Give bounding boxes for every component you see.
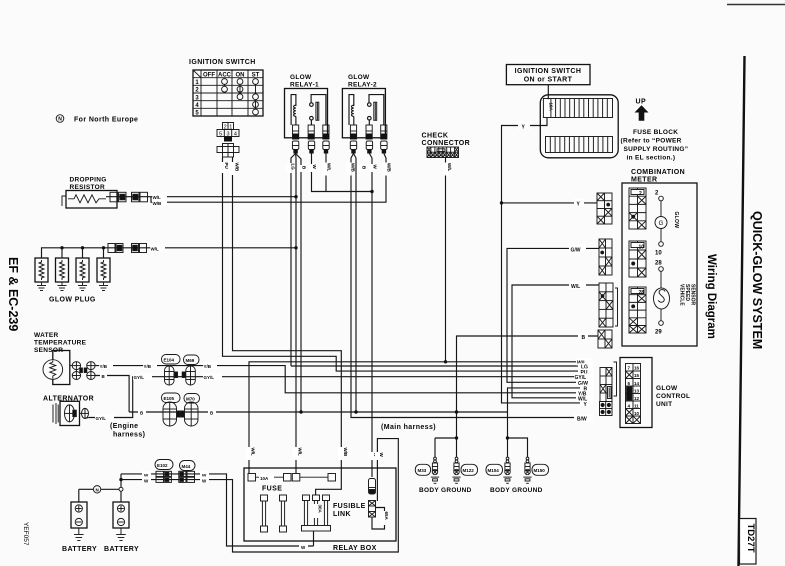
- fusible link connector: [369, 479, 376, 495]
- combination meter box: [622, 183, 697, 346]
- label W/L comb: [569, 281, 586, 290]
- relay 1 pins: [292, 141, 329, 154]
- label GY/L alternator: [95, 414, 114, 421]
- svg-text:SENSOR: SENSOR: [690, 284, 696, 306]
- svg-text:M70: M70: [186, 397, 195, 402]
- svg-text:W/B: W/B: [153, 201, 162, 206]
- svg-text:VEHICLE: VEHICLE: [679, 284, 685, 306]
- fusible link 30A three-element: [302, 495, 331, 531]
- svg-text:GLOW: GLOW: [656, 385, 678, 392]
- svg-text:EF & EC-239: EF & EC-239: [6, 257, 20, 331]
- svg-text:DROPPING: DROPPING: [70, 177, 107, 184]
- connector M69: [182, 366, 195, 385]
- GCU pigtail connector dots: [600, 402, 613, 416]
- check connector block: [427, 147, 459, 158]
- svg-text:RELAY BOX: RELAY BOX: [333, 545, 377, 552]
- open junction battery: [119, 487, 123, 491]
- junction Y to combination meter: [500, 201, 503, 204]
- label W/L glow plug: [150, 244, 165, 252]
- fuse block top comb: [543, 99, 612, 118]
- ignition ON-START box: [506, 65, 590, 85]
- comb meter pin 29: [659, 321, 664, 326]
- relay 1 contact: [310, 95, 326, 125]
- svg-text:E104: E104: [164, 358, 175, 363]
- svg-text:YEF057: YEF057: [22, 522, 29, 546]
- svg-text:QUICK-GLOW SYSTEM: QUICK-GLOW SYSTEM: [750, 211, 764, 349]
- top right rule: [727, 4, 785, 6]
- svg-text:OFF: OFF: [203, 72, 215, 78]
- svg-text:UNIT: UNIT: [656, 401, 672, 408]
- svg-text:GY/L: GY/L: [134, 375, 145, 380]
- glow plug stubs: [62, 248, 104, 258]
- ground branch left pair: [435, 438, 457, 457]
- relay 1 terminals: [293, 125, 330, 139]
- label W pair left: [142, 471, 151, 478]
- svg-text:in EL section.): in EL section.): [627, 155, 676, 162]
- label PU: [220, 162, 230, 173]
- junction B relay2: [354, 410, 357, 413]
- battery 1: [71, 502, 87, 528]
- comb meter connector strip S2: [599, 239, 612, 275]
- label B sensor: [100, 372, 107, 379]
- glow plug 2 ground: [58, 282, 67, 291]
- svg-text:(Engine: (Engine: [110, 423, 138, 430]
- junction B relay1: [299, 410, 302, 413]
- svg-text:CONTROL: CONTROL: [656, 393, 690, 400]
- connector label M33: [415, 464, 430, 475]
- relay 2 pins: [350, 141, 387, 154]
- comb meter pin 10: [659, 242, 664, 247]
- svg-text:IGNITION SWITCH: IGNITION SWITCH: [189, 59, 256, 66]
- fuse 1 10A: [248, 474, 291, 482]
- wire sensor to pin 29: [660, 309, 662, 321]
- label Y/B c: [203, 362, 217, 369]
- svg-text:COMBINATION: COMBINATION: [631, 169, 685, 176]
- wire ignition to fuse block: [547, 85, 549, 101]
- svg-text:GLOW PLUG: GLOW PLUG: [49, 297, 96, 304]
- svg-text:ON: ON: [236, 72, 245, 78]
- fuse 10A label: [544, 99, 553, 116]
- svg-text:N: N: [58, 117, 62, 123]
- svg-text:Y/B: Y/B: [144, 364, 152, 369]
- comb meter inner strip T1: [629, 188, 646, 229]
- wire B sensor down: [95, 376, 129, 413]
- svg-text:RELAY-1: RELAY-1: [290, 82, 319, 89]
- relay box border: [244, 468, 396, 541]
- svg-text:N: N: [95, 487, 98, 492]
- tab TD27T: [740, 519, 757, 565]
- svg-text:10A: 10A: [260, 476, 269, 481]
- wire PU from ignition: [223, 157, 594, 371]
- glow control unit box: [620, 358, 652, 428]
- wire lamp to pin 10: [660, 229, 662, 242]
- wire battery positive riser: [120, 474, 122, 487]
- vertical fuse 3: [261, 495, 268, 532]
- relay2 pin labels: [347, 163, 356, 176]
- svg-text:12: 12: [634, 396, 640, 401]
- comb meter connector strip S3: [599, 283, 618, 327]
- glow plug 3 ground: [78, 282, 87, 291]
- glow plug 4 ground: [99, 282, 108, 291]
- svg-text:2: 2: [224, 124, 227, 130]
- junction ground branch right: [506, 436, 509, 439]
- glow plug 1 ground: [37, 282, 46, 291]
- svg-text:15: 15: [634, 373, 640, 378]
- comb meter connector strip S4: [598, 330, 612, 348]
- label W bottom: [299, 543, 308, 550]
- svg-text:ACC: ACC: [218, 72, 232, 78]
- connector label M104: [486, 464, 503, 475]
- svg-text:M44: M44: [182, 464, 191, 469]
- svg-text:13: 13: [634, 388, 640, 393]
- connector E104: [165, 366, 178, 385]
- label W pair right: [200, 471, 209, 478]
- wire W/B from ignition to relay box fuse: [233, 157, 342, 495]
- svg-text:16: 16: [634, 366, 640, 371]
- svg-text:LG: LG: [291, 164, 296, 171]
- label B comb: [578, 332, 588, 341]
- svg-text:GLOW: GLOW: [348, 74, 370, 81]
- wire W/L main: [249, 362, 593, 474]
- svg-text:Wiring Diagram: Wiring Diagram: [705, 254, 717, 339]
- junction W/L dropping: [294, 195, 297, 198]
- battery 1 ground: [74, 528, 84, 541]
- relay 1 pin3 wire W/L: [325, 154, 327, 192]
- comb meter inner strip T2: [629, 241, 646, 277]
- svg-text:11: 11: [634, 403, 639, 408]
- label B left of E105: [138, 408, 146, 415]
- label Y fuse wire: [518, 122, 530, 131]
- relay 2 coil: [349, 95, 354, 125]
- svg-text:10: 10: [655, 251, 662, 257]
- svg-text:W/L: W/L: [251, 448, 256, 456]
- harness cross connector: [217, 144, 239, 158]
- glow plug connector pair: [108, 244, 147, 253]
- svg-text:G: G: [659, 221, 664, 227]
- wire B main to grounds: [129, 411, 507, 413]
- vehicle speed sensor: [654, 288, 670, 309]
- vertical fuse 4: [280, 495, 287, 532]
- svg-text:14: 14: [634, 381, 640, 386]
- svg-text:28: 28: [639, 290, 645, 296]
- glow plug 1: [35, 258, 48, 282]
- svg-text:SPEED: SPEED: [684, 284, 690, 301]
- junction relay W: [370, 190, 373, 193]
- svg-text:GY/L: GY/L: [204, 375, 215, 380]
- relay 2 pin1 wire to B/W: [351, 154, 593, 418]
- svg-text:GY/L: GY/L: [96, 416, 107, 421]
- svg-text:SUPPLY ROUTING”: SUPPLY ROUTING”: [624, 146, 689, 153]
- label B right of M70: [208, 408, 216, 415]
- fuse block bottom comb: [546, 137, 613, 153]
- body ground M122: [452, 457, 460, 483]
- label G/W comb: [569, 245, 586, 254]
- svg-text:W/B: W/B: [343, 448, 348, 457]
- connector label M44: [180, 461, 196, 471]
- svg-text:W/B: W/B: [351, 163, 356, 172]
- svg-text:W/B: W/B: [235, 163, 240, 172]
- wire 30A bar to battery W: [313, 531, 315, 546]
- relay 2 pin2 wire W: [369, 154, 372, 478]
- check connector wire W/L: [445, 158, 447, 362]
- svg-text:10A: 10A: [549, 103, 554, 112]
- relay1 pin labels: [287, 163, 296, 173]
- fuse 2: [292, 474, 335, 482]
- relay box entry labels: [246, 447, 256, 460]
- svg-text:BATTERY: BATTERY: [104, 546, 139, 553]
- label 65A: [380, 511, 389, 525]
- svg-text:B/W: B/W: [577, 416, 587, 422]
- alternator connector: [80, 408, 90, 418]
- wire pin28 to speed sensor: [660, 271, 662, 288]
- fuse block note: [621, 129, 689, 162]
- battery 2: [113, 502, 129, 528]
- connector label M150: [532, 464, 549, 475]
- dropping resistor connector pair 2: [132, 192, 148, 202]
- svg-text:G/W: G/W: [571, 247, 581, 253]
- wire Y from fuse block: [502, 118, 594, 403]
- relay 2 contact: [368, 95, 384, 125]
- wire G/W to comb meter: [507, 248, 599, 382]
- svg-text:BATTERY: BATTERY: [62, 546, 97, 553]
- glow plug 2: [56, 258, 69, 282]
- label Y/B a: [99, 362, 113, 369]
- ignition switch connector pin box: [217, 123, 239, 137]
- svg-text:UP: UP: [636, 99, 647, 106]
- connector M44: [179, 471, 195, 482]
- connector label M70: [184, 394, 200, 404]
- water temperature sensor symbol: [43, 351, 70, 385]
- connector M70: [181, 402, 198, 426]
- dropping resistor connector pair 1: [110, 192, 126, 202]
- connector label E105: [162, 393, 181, 403]
- svg-text:W/L: W/L: [571, 284, 580, 290]
- sensor connector pair: [70, 362, 95, 380]
- glow relay 2 box K2: [342, 89, 385, 138]
- svg-text:TEMPERATURE: TEMPERATURE: [34, 340, 87, 347]
- glow plug supply wire W/L: [42, 248, 297, 258]
- svg-text:E102: E102: [157, 463, 168, 468]
- label W/L dropping: [152, 193, 167, 200]
- connector label E102: [155, 460, 173, 470]
- svg-text:B: B: [582, 335, 586, 341]
- junction ground branch left: [455, 436, 458, 439]
- wire W/L from dropping resistor: [106, 196, 296, 198]
- svg-text:FUSE BLOCK: FUSE BLOCK: [633, 129, 678, 136]
- svg-text:GLOW: GLOW: [673, 212, 679, 229]
- label 30A: [313, 504, 322, 518]
- svg-text:Y/B: Y/B: [204, 364, 212, 369]
- relay 1 armature bar: [316, 102, 319, 120]
- label Y/B b: [143, 362, 157, 369]
- body ground M104: [503, 457, 511, 483]
- svg-text:M150: M150: [534, 468, 546, 473]
- svg-text:harness): harness): [113, 432, 145, 439]
- svg-text:W/B: W/B: [387, 163, 392, 172]
- alternator symbol: [53, 401, 80, 425]
- svg-text:ST: ST: [252, 72, 260, 78]
- svg-text:M122: M122: [463, 468, 475, 473]
- glow lamp: [655, 217, 667, 229]
- svg-text:5: 5: [219, 131, 222, 137]
- svg-text:For North Europe: For North Europe: [74, 117, 138, 124]
- svg-text:IGNITION SWITCH: IGNITION SWITCH: [515, 68, 582, 75]
- wire Y to comb meter: [502, 202, 598, 204]
- svg-text:GLOW: GLOW: [290, 74, 312, 81]
- ignition switch table SW1: [193, 70, 263, 116]
- svg-text:FUSIBLE: FUSIBLE: [333, 503, 366, 510]
- svg-text:W/L: W/L: [151, 247, 159, 252]
- svg-text:PU: PU: [224, 163, 229, 169]
- wire B to comb meter: [457, 336, 599, 438]
- north europe note: [56, 115, 64, 123]
- GCU harness connector strip: [600, 362, 617, 402]
- svg-text:ON or START: ON or START: [524, 77, 573, 84]
- svg-text:1: 1: [229, 124, 232, 130]
- wire B from GCU to ground: [508, 388, 594, 457]
- svg-text:W/L: W/L: [298, 448, 303, 456]
- circled N on battery wire: [93, 486, 100, 493]
- junction check W/L: [444, 360, 447, 363]
- relay 2 pin1 wire B branch: [354, 154, 357, 413]
- relay 1 pin1 wire LG: [291, 154, 296, 367]
- svg-text:29: 29: [655, 330, 662, 336]
- svg-text:WATER: WATER: [34, 332, 59, 339]
- body ground M150: [523, 457, 531, 483]
- svg-text:30A: 30A: [318, 505, 323, 514]
- comb meter connector strip S1: [597, 193, 612, 224]
- relay 1 pin2 wire W: [312, 154, 373, 192]
- comb meter inner strip T3: [629, 287, 646, 333]
- connector black key: [224, 137, 232, 142]
- label 10A fuse1: [259, 474, 274, 481]
- svg-text:M33: M33: [418, 468, 427, 473]
- relay 2 armature bar: [374, 102, 377, 120]
- connector E105: [163, 402, 180, 426]
- table header and row labels: [195, 72, 259, 116]
- wire GY/L alternator to GCU: [89, 377, 593, 418]
- relay 1 pin1 wire W/L branch: [295, 154, 297, 474]
- dropping resistor R: [62, 191, 117, 209]
- glow control unit label: [656, 385, 690, 408]
- svg-text:FUSE: FUSE: [262, 486, 282, 493]
- connector E102: [156, 471, 171, 482]
- junction glow plug W/L to relay: [294, 246, 297, 249]
- svg-text:M104: M104: [488, 468, 500, 473]
- label W/B: [230, 162, 240, 175]
- wire LG relay1 to GCU: [291, 365, 593, 367]
- glow plug 4: [97, 258, 110, 282]
- svg-text:2: 2: [639, 191, 642, 197]
- svg-text:W/L: W/L: [447, 163, 452, 171]
- connector label M122: [461, 464, 478, 475]
- wire W battery bottom around relay box: [121, 439, 398, 552]
- svg-text:CONNECTOR: CONNECTOR: [422, 140, 471, 147]
- svg-text:M69: M69: [186, 358, 195, 363]
- svg-text:BODY GROUND: BODY GROUND: [490, 487, 543, 494]
- svg-text:RELAY-2: RELAY-2: [348, 82, 377, 89]
- table contact circles: [222, 79, 259, 115]
- glow relay 1 box K1: [285, 89, 328, 138]
- svg-text:10: 10: [634, 411, 640, 416]
- svg-text:65A: 65A: [384, 512, 389, 521]
- svg-text:W/L: W/L: [327, 163, 332, 171]
- svg-text:Y/B: Y/B: [100, 364, 108, 369]
- label Y comb: [574, 199, 584, 208]
- wire W battery top to relay box fuse: [121, 474, 314, 546]
- glow plug 3: [76, 258, 89, 282]
- glow control unit pin grid: [626, 364, 641, 424]
- connector label M69: [184, 355, 200, 365]
- label GY/L b: [203, 373, 222, 380]
- fusible link 65A loop: [372, 508, 385, 530]
- svg-text:10: 10: [639, 244, 645, 250]
- svg-text:(Refer to “POWER: (Refer to “POWER: [621, 138, 682, 145]
- junction B body ground left: [455, 410, 458, 413]
- battery 2 ground: [116, 528, 126, 541]
- wire W/L to comb meter: [512, 285, 599, 398]
- fusible link element: [369, 501, 376, 518]
- section tab edge line: [739, 56, 745, 566]
- relay 2 pin3 wire W/B: [151, 154, 386, 203]
- label W/B dropping: [152, 199, 167, 206]
- battery link wire: [79, 489, 121, 502]
- wire pin2 to lamp: [660, 201, 662, 217]
- label W/L check: [443, 163, 453, 176]
- ground branch right pair: [508, 438, 528, 457]
- svg-text:4: 4: [234, 131, 237, 137]
- wire Y/B sensor to GCU: [95, 366, 593, 393]
- svg-text:(Main harness): (Main harness): [381, 424, 436, 431]
- svg-text:TD27T: TD27T: [745, 524, 756, 553]
- junction battery W: [119, 478, 122, 481]
- svg-text:CHECK: CHECK: [422, 133, 449, 140]
- fuse block body: [540, 95, 618, 158]
- body ground M33: [431, 457, 439, 483]
- relay 1 coil: [291, 95, 296, 125]
- GCU wire labels: [574, 358, 593, 422]
- relay 1 pin1 wire B branch: [296, 154, 301, 413]
- relay 2 terminals: [350, 125, 387, 139]
- svg-text:28: 28: [655, 261, 662, 267]
- svg-text:E105: E105: [164, 396, 175, 401]
- connector label E104: [162, 355, 181, 365]
- glow plug junctions: [60, 246, 63, 249]
- label GY/L a: [133, 373, 152, 380]
- svg-text:BODY GROUND: BODY GROUND: [419, 487, 472, 494]
- svg-text:LINK: LINK: [333, 511, 351, 518]
